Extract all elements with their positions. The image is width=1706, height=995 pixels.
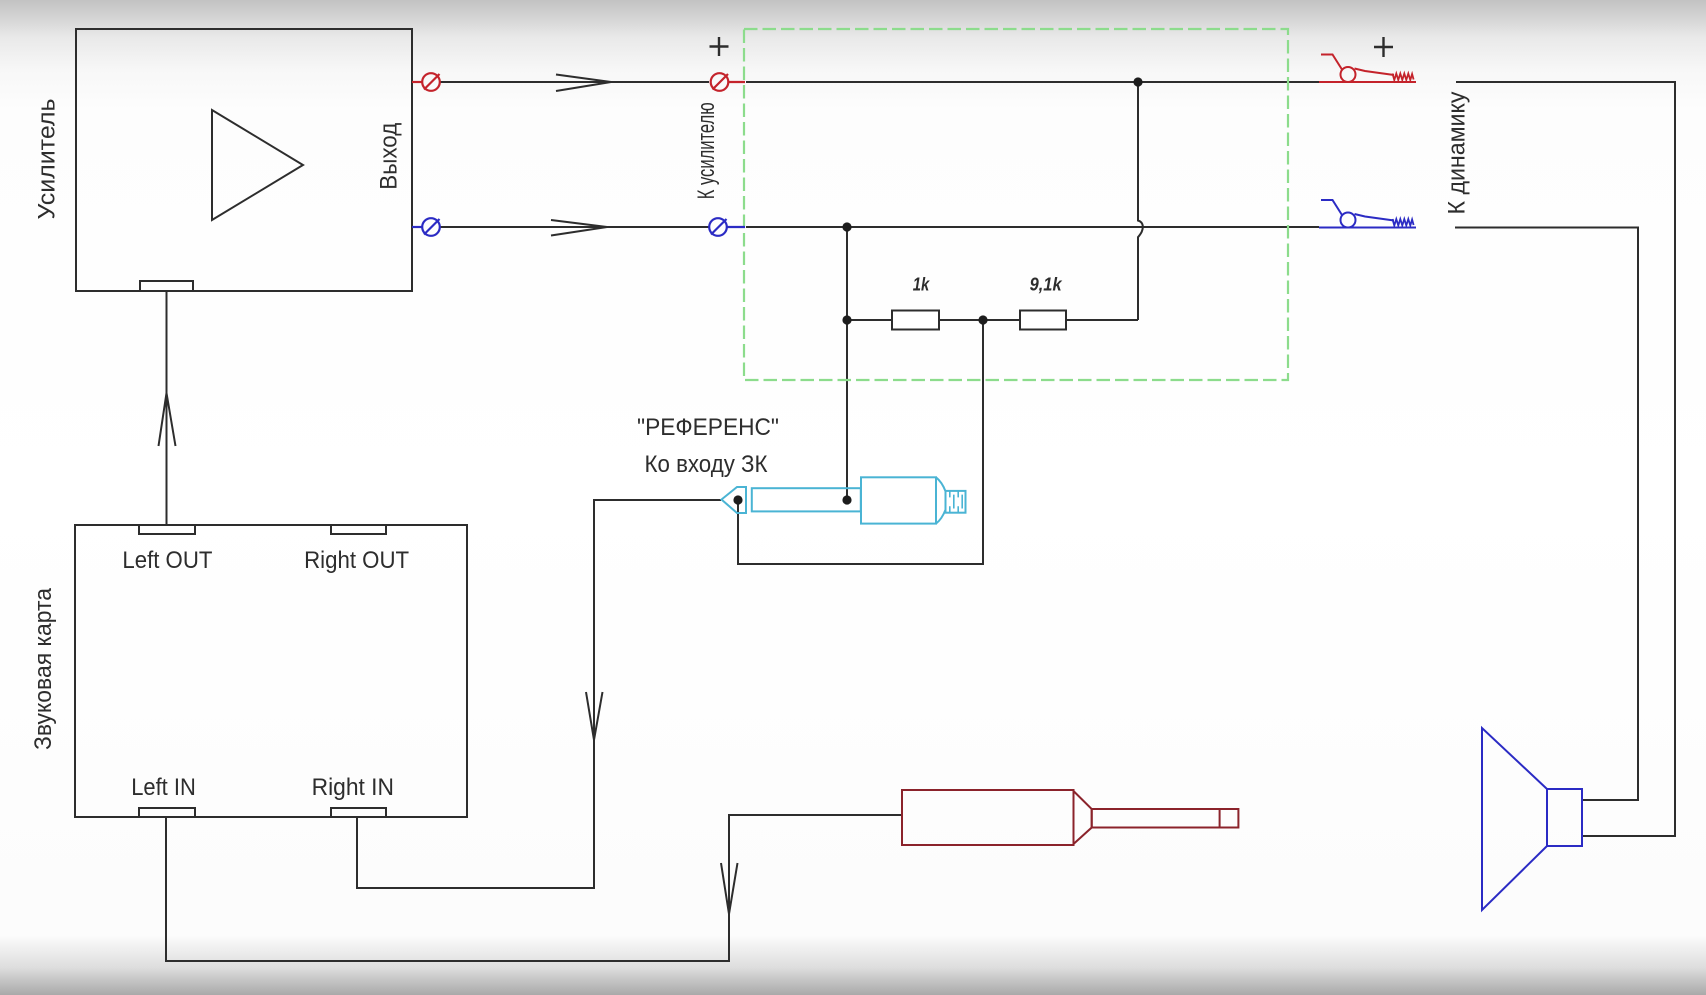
svg-text:Left IN: Left IN (131, 774, 196, 801)
svg-text:Звуковая карта: Звуковая карта (30, 587, 57, 750)
svg-text:Left OUT: Left OUT (122, 547, 212, 574)
svg-text:Усилитель: Усилитель (34, 99, 61, 220)
svg-text:Right OUT: Right OUT (304, 547, 409, 574)
svg-text:"РЕФЕРЕНС": "РЕФЕРЕНС" (637, 414, 779, 441)
svg-text:К динамику: К динамику (1444, 92, 1471, 215)
svg-text:Выход: Выход (376, 123, 403, 190)
svg-text:Ко входу ЗК: Ко входу ЗК (645, 451, 768, 478)
svg-text:К усилителю: К усилителю (693, 102, 720, 199)
svg-text:1k: 1k (913, 275, 930, 295)
svg-text:9,1k: 9,1k (1030, 275, 1063, 295)
svg-text:Right IN: Right IN (312, 774, 394, 801)
